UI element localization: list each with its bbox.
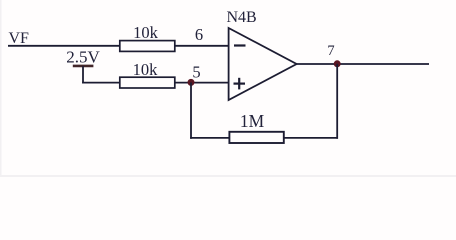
wire 2.5V to R2: [82, 82, 120, 84]
node junction at output: [334, 60, 341, 67]
wire R1 to op-amp inverting input: [175, 45, 229, 47]
wire VF to R1: [8, 45, 120, 47]
svg-text:2.5V: 2.5V: [66, 47, 100, 66]
node junction at pin 5: [188, 79, 195, 86]
wire R2 to op-amp non-inverting input: [175, 82, 229, 84]
2.5V source bar: [73, 65, 94, 68]
plus sign (non-inverting input): [234, 82, 246, 84]
feedback wire to R3: [190, 137, 229, 139]
svg-text:VF: VF: [9, 30, 30, 47]
output wire pin 7: [297, 63, 429, 65]
wire 2.5V down: [82, 66, 84, 84]
left edge band: [0, 0, 2, 177]
minus sign (inverting input): [234, 44, 246, 46]
feedback wire R3 to output node: [284, 137, 338, 139]
feedback wire down from pin 5 node: [190, 82, 192, 138]
svg-text:10k: 10k: [133, 23, 159, 42]
resistor R1 10k (top): [120, 41, 175, 52]
svg-text:7: 7: [327, 43, 334, 59]
resistor R2 10k (bottom): [120, 77, 175, 88]
bottom edge band: [0, 175, 456, 177]
svg-text:5: 5: [192, 63, 200, 82]
svg-text:1M: 1M: [240, 111, 265, 131]
resistor R3 1M (feedback): [229, 132, 283, 143]
svg-text:10k: 10k: [133, 60, 159, 79]
op-amp U1 N4B triangle: [229, 28, 297, 100]
feedback wire up to output node: [336, 64, 338, 139]
svg-text:N4B: N4B: [227, 9, 257, 26]
svg-text:6: 6: [195, 25, 203, 44]
